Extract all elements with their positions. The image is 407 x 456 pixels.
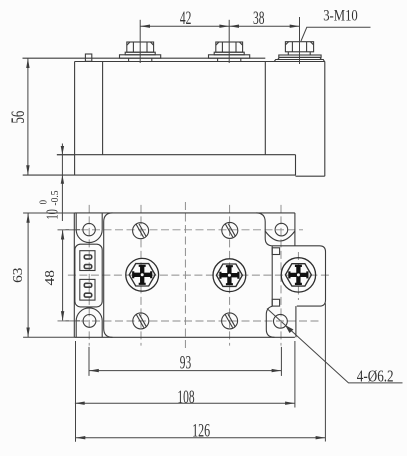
arrow 42 left (140, 25, 150, 28)
dim 63 line (27, 213, 29, 337)
dim 63 top extension (23, 212, 74, 214)
bolt M10 no1 nut (127, 42, 154, 52)
arrow 56 top (26, 58, 29, 68)
side view body left edge (74, 62, 76, 176)
centerline hole row top (58, 229, 304, 231)
dim 93 right extension (280, 347, 282, 376)
side view right block left edge (264, 62, 266, 155)
bolt no1 pedestal stubs (129, 58, 152, 61)
slotted screw top-right (222, 222, 238, 238)
connector pins (84, 255, 91, 297)
centerline terminal3 (297, 252, 299, 300)
hole pocket bottom-left (U shape) (76, 308, 102, 337)
arrow 10 lower (61, 175, 64, 184)
pin slot 1b (84, 265, 91, 269)
connector surround (75, 244, 102, 307)
svg-text:10: 10 (42, 209, 61, 219)
svg-text:38: 38 (253, 9, 265, 29)
leader 3-M10 (301, 27, 371, 41)
plan plate bottom edge (74, 336, 295, 338)
dim 108 line (75, 402, 295, 404)
bolt M10 no3 nut (285, 42, 313, 52)
bolt no2 pedestal stubs (218, 58, 241, 61)
arrow 42 right (219, 25, 229, 28)
arrow 38 left (229, 25, 239, 28)
terminal 2 (213, 259, 246, 292)
bolt no3 pedestal upper (278, 57, 322, 59)
bolt no1 washer (125, 52, 155, 55)
arrow 108 right (285, 402, 295, 405)
arrow 10 upper (61, 146, 64, 155)
body outline right upper to tab top (256, 213, 273, 246)
dim 108 right extension (294, 341, 296, 408)
arrowheads (26, 25, 325, 440)
dim 48 top extension (58, 229, 81, 231)
svg-text:108: 108 (177, 388, 194, 408)
arrow 48 bottom (61, 311, 64, 321)
connector block 2 (80, 279, 95, 300)
bolt no1 terminal plate (120, 55, 161, 58)
plan plate top edge (74, 212, 295, 214)
plan plate right edge lower (295, 306, 297, 337)
rivet bump on lid (85, 54, 91, 61)
arrow 108 left (75, 402, 85, 405)
svg-text:48: 48 (43, 270, 58, 285)
svg-text:56: 56 (9, 111, 29, 124)
plan plate left edge (73, 213, 75, 337)
side view baseplate top edge (57, 154, 296, 156)
arrow 126 left (76, 436, 86, 439)
side view inner vertical line (102, 62, 104, 155)
hole pocket top-left (U shape) (76, 213, 102, 243)
centerline left hole column (88, 205, 90, 346)
dim 10 extension (57, 154, 75, 156)
mounting hole top-left (83, 223, 95, 235)
side view baseplate right edge (295, 155, 297, 175)
connector block 1 (80, 251, 95, 271)
svg-text:63: 63 (11, 268, 26, 283)
svg-text:-0.5: -0.5 (50, 190, 61, 205)
terminal 1 (126, 258, 159, 291)
arrow 56 bottom (26, 165, 29, 175)
plan view outlines (74, 213, 325, 337)
arrow leader 4-dia6.2 (285, 325, 294, 333)
pin slot 1a (84, 255, 91, 259)
extension line bolt3 center (299, 17, 301, 64)
text 10 with tolerance rotated (38, 190, 61, 219)
mounting hole bottom-left (83, 315, 96, 328)
arrow 63 bottom (26, 328, 29, 338)
arrow 48 top (61, 230, 64, 240)
mounting hole top-right (275, 223, 288, 236)
arrow 126 right (316, 436, 326, 439)
slotted screw bottom-right (222, 313, 238, 329)
plan plate right edge upper (294, 213, 296, 246)
body outline right lower (266, 306, 274, 337)
centerline main horizontal (68, 274, 332, 276)
side view body top line (75, 61, 325, 63)
svg-text:42: 42 (180, 9, 192, 29)
svg-text:93: 93 (180, 354, 191, 374)
right tab left edge (271, 246, 273, 306)
bolt no2 terminal plate (209, 55, 250, 58)
dim 93 left extension (88, 347, 90, 376)
hole pocket arc top-right (265, 231, 295, 241)
extension line bolt2 center (228, 20, 230, 63)
body outline left (104, 213, 113, 337)
dim 10 line (61, 144, 63, 222)
bolt no3 stubs (288, 52, 310, 55)
tab clip square bottom (272, 299, 279, 306)
holes and screws (83, 222, 288, 329)
leader 4-dia6.2 (267, 309, 403, 383)
svg-text:126: 126 (192, 422, 210, 442)
extension line bolt1 center (139, 20, 141, 63)
svg-text:3-M10: 3-M10 (323, 7, 358, 24)
dim 48 line (62, 230, 64, 321)
centerline module vertical axis (184, 202, 186, 348)
centerline terminal2 column (229, 205, 231, 346)
arrow 93 left (89, 369, 99, 372)
side view baseplate bottom edge (23, 174, 296, 176)
svg-text:0: 0 (38, 200, 49, 204)
tab clip square top (272, 248, 279, 255)
slotted screw top-left (133, 223, 149, 239)
centerline right hole column (280, 205, 282, 346)
dim 63 bottom extension (23, 336, 74, 338)
terminal 3 (281, 258, 315, 292)
centerline terminal1 column (140, 205, 142, 346)
dim 56 line (27, 58, 29, 175)
dim 48 bottom extension (58, 320, 81, 322)
svg-text:4-Ø6.2: 4-Ø6.2 (357, 366, 394, 385)
dim 126 line (76, 437, 326, 439)
side view right block right edge (324, 62, 326, 177)
side view right block bottom edge (296, 175, 325, 177)
dimension texts (177, 9, 264, 442)
pin slot 2a (84, 283, 91, 287)
centerline hole row bottom (58, 320, 321, 322)
right tab outline (273, 246, 326, 306)
arrow 38 right (290, 25, 300, 28)
arrow 93 right (272, 369, 282, 372)
dimension line 42 and 38 (140, 25, 299, 27)
side view lid top line (23, 57, 266, 59)
dim 126 left extension (75, 341, 77, 442)
centerlines plan view (58, 202, 332, 348)
bolt M10 no2 nut (216, 42, 243, 52)
dim 93 line (89, 370, 281, 372)
bolt no3 pedestal lower (274, 60, 324, 62)
pin slot 2b (84, 293, 91, 297)
mounting hole bottom-right (274, 314, 288, 328)
dim 126 right extension (324, 303, 326, 441)
bolt no2 washer (214, 52, 244, 55)
bolt no3 washer plate (279, 55, 321, 57)
arrow 63 top (26, 213, 29, 223)
slotted screw bottom-left (133, 313, 149, 329)
